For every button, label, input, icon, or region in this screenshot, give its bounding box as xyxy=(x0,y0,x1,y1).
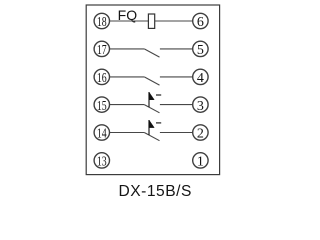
flag pole contact 14-2 xyxy=(148,120,150,135)
svg-text:FQ: FQ xyxy=(118,7,138,23)
svg-text:2: 2 xyxy=(197,127,204,142)
wire to 5 xyxy=(160,48,193,50)
terminal 1 xyxy=(193,153,208,170)
svg-text:14: 14 xyxy=(97,127,107,142)
svg-text:15: 15 xyxy=(97,99,107,114)
svg-text:3: 3 xyxy=(197,99,204,114)
wire to 4 xyxy=(160,76,193,78)
flag triangle contact 14-2 xyxy=(149,120,154,128)
coil FQ xyxy=(148,14,154,28)
terminal 6 xyxy=(193,13,208,30)
svg-text:18: 18 xyxy=(97,15,107,30)
contact blade 15-3 xyxy=(144,105,159,113)
terminal 3 xyxy=(193,97,208,114)
flag dash contact 14-2 xyxy=(156,122,161,124)
terminal 4 xyxy=(193,69,208,86)
svg-text:4: 4 xyxy=(197,71,204,86)
terminal 18 xyxy=(94,13,109,30)
flag triangle contact 15-3 xyxy=(149,92,154,100)
wire from 16 xyxy=(110,76,145,78)
terminal 14 xyxy=(94,125,109,142)
wire to 3 xyxy=(160,104,193,106)
terminal 2 xyxy=(193,125,208,142)
relay case outline xyxy=(86,5,219,175)
svg-text:13: 13 xyxy=(97,155,107,170)
contact blade 17-5 xyxy=(144,49,159,57)
terminal 13 xyxy=(94,153,109,170)
contact blade 16-4 xyxy=(144,77,159,85)
svg-text:1: 1 xyxy=(197,155,204,170)
wire coil to 6 xyxy=(155,20,193,22)
flag dash contact 15-3 xyxy=(156,94,161,96)
terminal 5 xyxy=(193,41,208,58)
svg-text:17: 17 xyxy=(97,43,107,58)
wire to 2 xyxy=(160,132,193,134)
wire from 17 xyxy=(110,48,145,50)
wire from 14 xyxy=(110,132,145,134)
svg-text:DX-15B/S: DX-15B/S xyxy=(119,183,192,200)
svg-text:5: 5 xyxy=(197,43,204,58)
contact blade 14-2 xyxy=(144,133,159,141)
wire from 15 xyxy=(110,104,145,106)
terminal 15 xyxy=(94,97,109,114)
terminal 17 xyxy=(94,41,109,58)
wire 18 to coil xyxy=(110,20,149,22)
svg-text:16: 16 xyxy=(97,71,107,86)
terminal 16 xyxy=(94,69,109,86)
flag pole contact 15-3 xyxy=(148,92,150,107)
svg-text:6: 6 xyxy=(197,15,204,30)
